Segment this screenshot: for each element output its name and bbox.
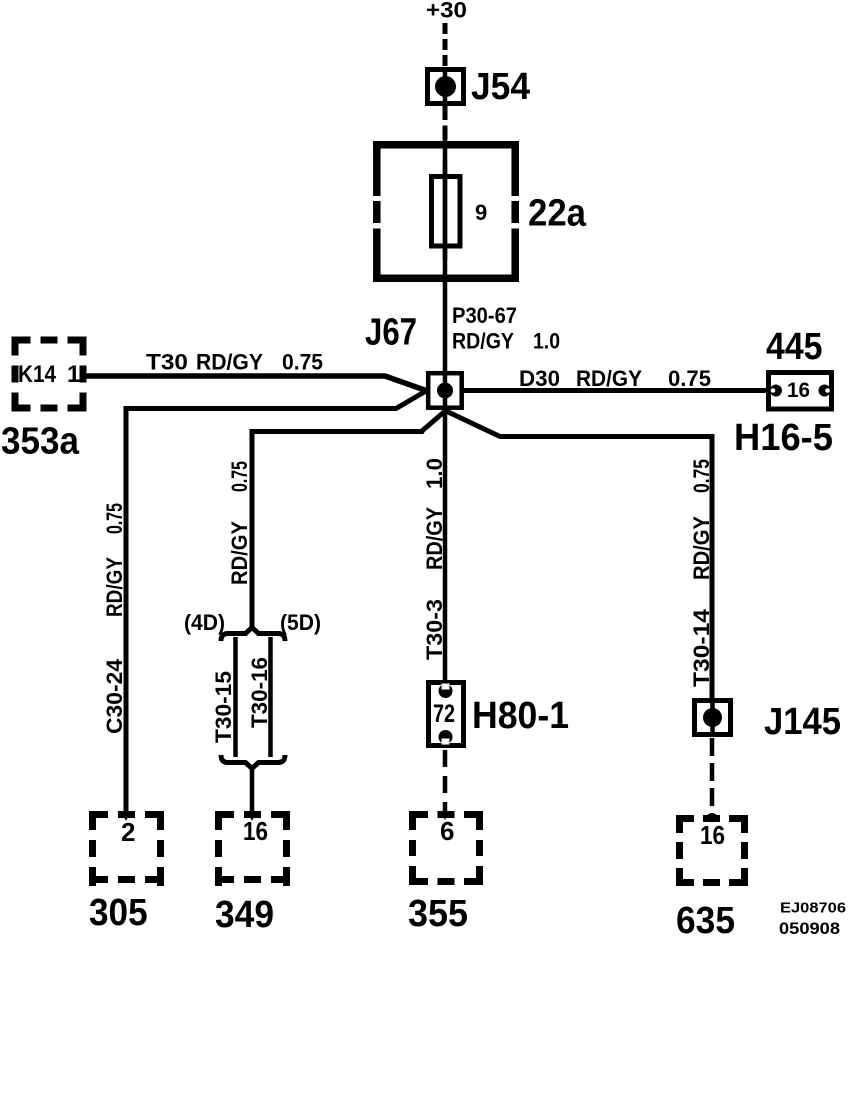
connector 349 dashed box — [215, 811, 290, 886]
svg-text:349: 349 — [215, 894, 274, 936]
fuse element 9 — [432, 177, 461, 247]
junction J54 — [428, 70, 464, 104]
svg-text:T30-14: T30-14 — [689, 608, 714, 687]
svg-text:RD/GY: RD/GY — [227, 521, 252, 585]
connector 305 dashed box — [89, 811, 164, 886]
svg-text:050908: 050908 — [779, 920, 840, 938]
svg-text:RD/GY: RD/GY — [576, 366, 642, 391]
svg-text:445: 445 — [766, 326, 823, 368]
connector K14 (353a) dashed box — [12, 337, 87, 412]
svg-text:RD/GY: RD/GY — [196, 350, 263, 375]
wire D30 from J67 to 445 — [460, 388, 768, 393]
svg-text:0.75: 0.75 — [227, 461, 252, 492]
wire T30-15 branch — [233, 637, 238, 757]
label T30-14 RD/GY 0.75 (rotated, col4) — [689, 459, 714, 687]
svg-text:RD/GY: RD/GY — [422, 507, 447, 570]
wire from J67 to column 1 (C30-24) — [126, 391, 426, 814]
svg-text:RD/GY: RD/GY — [452, 329, 514, 354]
svg-text:0.75: 0.75 — [689, 459, 714, 493]
wire dashed J145 to 635 — [710, 738, 715, 816]
svg-text:(4D): (4D) — [184, 610, 225, 635]
wire from J67 down to H80-1 (T30-3) — [443, 408, 448, 683]
svg-text:RD/GY: RD/GY — [689, 516, 714, 580]
svg-text:72: 72 — [433, 700, 455, 728]
svg-text:0.75: 0.75 — [668, 366, 711, 391]
svg-text:355: 355 — [408, 893, 468, 935]
svg-text:C30-24: C30-24 — [102, 658, 127, 734]
svg-text:T30: T30 — [146, 350, 188, 375]
wire T30 from K14 to junction J67 — [80, 376, 426, 391]
svg-text:635: 635 — [676, 900, 735, 942]
svg-text:(5D): (5D) — [280, 610, 321, 635]
pin socket left — [770, 385, 782, 397]
svg-text:H16-5: H16-5 — [734, 417, 833, 459]
wire dashed J54 to fuse box 22a — [443, 106, 448, 143]
svg-text:305: 305 — [89, 892, 148, 934]
svg-text:6: 6 — [440, 816, 454, 846]
bracket top (alternative splice) — [221, 628, 285, 642]
svg-text:0.75: 0.75 — [102, 503, 127, 534]
svg-text:22a: 22a — [528, 193, 587, 235]
bracket bottom (merge) — [221, 755, 285, 769]
connector 445 box — [769, 373, 832, 410]
svg-text:K14: K14 — [18, 361, 57, 388]
svg-text:+30: +30 — [426, 0, 467, 23]
svg-text:T30-15: T30-15 — [211, 671, 236, 743]
wire tip into 635 — [708, 814, 717, 823]
svg-text:16: 16 — [243, 816, 268, 846]
svg-text:P30-67: P30-67 — [452, 303, 517, 328]
wire T30-16 branch — [268, 637, 273, 757]
connector H80-1 box — [429, 683, 464, 746]
svg-text:1.0: 1.0 — [422, 458, 447, 489]
svg-text:16: 16 — [787, 379, 810, 402]
svg-text:D30: D30 — [519, 366, 560, 391]
svg-text:RD/GY: RD/GY — [102, 557, 127, 617]
wire from J67 to column 2 (349) — [252, 412, 444, 627]
wire through fuse box 22a down to junction J67 — [443, 138, 448, 373]
wire tip into 305 — [122, 812, 131, 821]
pin socket bottom — [439, 730, 453, 744]
svg-text:T30-3: T30-3 — [422, 599, 447, 660]
wire dashed H80-1 to 355 — [443, 750, 448, 812]
svg-text:0.75: 0.75 — [282, 350, 323, 375]
wire from J67 to column 4 (T30-14) — [446, 411, 712, 700]
label RD/GY 0.75 (rotated, col2) — [227, 461, 252, 585]
wire tip into 355 — [441, 811, 450, 820]
svg-text:J54: J54 — [471, 66, 530, 108]
junction J145 box — [695, 701, 731, 735]
fuse holder box 22a (dashed enclosure) — [373, 141, 519, 282]
pin socket right — [819, 385, 831, 397]
svg-text:T30-16: T30-16 — [247, 657, 272, 728]
connector 355 dashed box — [409, 811, 483, 885]
wire dashed +30 to J54 — [443, 23, 448, 67]
svg-text:9: 9 — [475, 200, 487, 225]
svg-text:2: 2 — [121, 817, 135, 847]
svg-text:353a: 353a — [1, 421, 80, 463]
label T30-3 RD/GY 1.0 (rotated, col3) — [422, 458, 447, 660]
wire bracket to 349 — [250, 766, 255, 814]
svg-text:J67: J67 — [365, 312, 417, 354]
wire tip into 349 — [248, 812, 257, 821]
connector 635 dashed box — [676, 815, 748, 886]
svg-text:J145: J145 — [764, 701, 841, 743]
svg-text:1: 1 — [67, 361, 80, 388]
svg-text:H80-1: H80-1 — [472, 695, 569, 737]
pin socket top — [439, 684, 453, 698]
svg-text:16: 16 — [700, 820, 725, 850]
label C30-24 RD/GY 0.75 (rotated) — [102, 503, 127, 734]
svg-text:1.0: 1.0 — [533, 329, 560, 354]
junction J67 box — [428, 373, 462, 408]
svg-text:EJ08706: EJ08706 — [780, 900, 846, 917]
